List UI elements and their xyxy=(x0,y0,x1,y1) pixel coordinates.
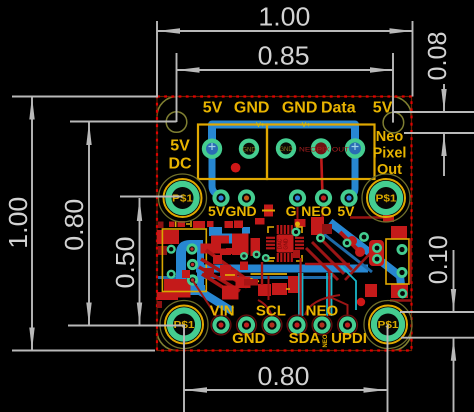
wire red fan 2 xyxy=(201,259,247,287)
smd left column B xyxy=(164,279,191,298)
keepout circle top-left xyxy=(159,174,207,222)
SILK_TEXT xyxy=(168,100,406,348)
svg-text:GND: GND xyxy=(282,100,318,117)
smd top right corner xyxy=(383,215,394,222)
dim line 0.08 right lower xyxy=(443,133,445,176)
smd right block bottom xyxy=(391,284,408,298)
HEADER_PADS xyxy=(159,174,413,349)
via stemma left 2 xyxy=(167,270,176,279)
mounting hole top-right xyxy=(383,112,404,133)
pad header G mid xyxy=(289,189,306,206)
IC silk corner BR xyxy=(296,255,302,261)
pad J2-2 xyxy=(311,138,331,158)
smd strip dark 1 xyxy=(158,222,164,229)
svg-text:P$1: P$1 xyxy=(376,193,397,205)
svg-text:UPDI: UPDI xyxy=(331,330,367,347)
wire 5V stub left down xyxy=(212,146,221,195)
ext line bottom-pad-right vertical xyxy=(387,325,389,412)
svg-text:1.00: 1.00 xyxy=(3,197,33,249)
wire blue diagonal right xyxy=(330,222,402,294)
dim line 0.08 right upper xyxy=(443,84,445,112)
keepout circle bottom-left xyxy=(160,301,208,349)
wire cyan pair 1a xyxy=(298,273,300,316)
ext line board-left vertical xyxy=(156,21,158,97)
smd center red 2 xyxy=(213,255,222,264)
pad J2-3 xyxy=(345,138,365,158)
ext line hole-top-tangent-2 xyxy=(404,132,474,134)
svg-text:Pixel: Pixel xyxy=(373,146,407,162)
dim line 1.00 left xyxy=(31,97,33,351)
arrow 0.85 right xyxy=(370,67,393,72)
red blob right cluster xyxy=(369,240,384,266)
smd in C xyxy=(182,270,190,278)
corner arc top-right xyxy=(392,97,412,117)
via red in connector J1 xyxy=(231,163,241,173)
smd block right of IC xyxy=(311,217,324,235)
ext line board-right vertical xyxy=(412,21,414,97)
ext line board-top horizontal xyxy=(12,96,158,98)
smd center red 3 xyxy=(226,248,232,254)
smd small left xyxy=(158,246,167,255)
via red bottom right xyxy=(357,298,365,306)
smd sot pad 2 xyxy=(355,247,365,257)
smd left column A xyxy=(157,230,179,244)
wire red right hline xyxy=(390,299,411,301)
svg-text:GND: GND xyxy=(234,100,270,117)
wire V+ blue top bus xyxy=(212,125,355,149)
smd bottom cluster 1 xyxy=(221,270,238,281)
smd right mid low xyxy=(365,284,377,297)
svg-text:5V: 5V xyxy=(337,203,355,219)
svg-text:0.85: 0.85 xyxy=(258,41,310,71)
via teal mid 2 xyxy=(262,254,270,262)
svg-text:5V: 5V xyxy=(170,138,190,155)
pad header UPDI bottom xyxy=(338,315,358,335)
wire red diag thick xyxy=(340,232,362,254)
via diag 2 xyxy=(316,234,325,243)
smd center red right xyxy=(251,238,261,256)
mount pad P$1 bottom-left xyxy=(165,306,203,344)
arrow 1.00 left top xyxy=(29,97,34,120)
svg-text:SDA: SDA xyxy=(289,330,321,347)
arrow 0.80 bottom left xyxy=(184,387,207,392)
arrow 1.00 top right xyxy=(390,28,413,33)
wire blue band A xyxy=(196,265,368,273)
wire red vline b xyxy=(300,258,302,316)
arrow 0.10 up xyxy=(451,338,456,361)
IC U1 body xyxy=(277,235,294,253)
ext line hole-bottom-tangent-1 xyxy=(400,311,474,313)
corner arc bottom-left xyxy=(157,331,177,351)
wire red fan 3 xyxy=(199,267,240,291)
pad header 5V mid xyxy=(212,189,229,206)
wire cyan pair 2b xyxy=(331,273,333,316)
IC silk corner TR xyxy=(296,227,302,233)
component R between labels xyxy=(262,205,275,217)
arrow 0.80 left top xyxy=(86,122,91,145)
smd bottom cluster 3 xyxy=(236,277,251,289)
IC U1 pins right xyxy=(295,237,304,250)
svg-text:5V: 5V xyxy=(208,203,226,219)
wire red scl curve xyxy=(258,300,272,316)
smd band left low xyxy=(244,279,258,286)
pad stemma 2 xyxy=(187,259,198,270)
wire blue patch left 3 xyxy=(242,227,250,234)
pad header NEO mid xyxy=(315,189,332,206)
smd sot pad 1 xyxy=(347,236,357,246)
smd below ic right xyxy=(293,250,300,258)
svg-text:5V: 5V xyxy=(373,100,393,117)
wire red g mid down xyxy=(297,207,299,219)
silk tick strip b xyxy=(190,221,192,227)
ext line pad-row-bottom horizontal xyxy=(68,325,184,327)
svg-text:G: G xyxy=(286,203,297,219)
via diag 3 xyxy=(343,239,352,248)
arrow 0.50 left top xyxy=(137,198,142,221)
connector J1 outline xyxy=(198,125,267,180)
wire red diag bundle 2 xyxy=(312,242,344,274)
via right cluster 0 xyxy=(359,232,369,242)
svg-text:0.10: 0.10 xyxy=(423,235,453,284)
pad stemma 3 xyxy=(187,274,198,285)
dim line 0.10 right lower xyxy=(453,338,455,412)
connector J2 outline xyxy=(267,125,375,180)
wire red vin trace xyxy=(193,281,217,317)
dim line 1.00 top xyxy=(157,30,413,32)
IC silk corner BL xyxy=(268,255,274,261)
pad J1-2 xyxy=(239,139,259,159)
arrow 0.85 left xyxy=(177,67,200,72)
svg-text:Neo: Neo xyxy=(376,129,404,145)
wire blue connector C left xyxy=(181,245,205,290)
arrow 0.80 bottom right xyxy=(364,387,387,392)
pad header GND mid xyxy=(238,189,255,206)
pad header SCL bottom xyxy=(262,315,282,335)
svg-text:Data: Data xyxy=(321,100,356,117)
wire red vline d xyxy=(268,276,270,300)
wire red fan 4 xyxy=(202,274,232,293)
via diag 1 xyxy=(292,228,301,237)
mount pad P$1 bottom-right xyxy=(369,306,407,344)
ext line pad-row-top horizontal xyxy=(120,196,183,198)
svg-text:V+: V+ xyxy=(256,122,265,129)
wire red right vline xyxy=(410,239,412,284)
smd fan origin block xyxy=(201,244,222,254)
wire cyan diag xyxy=(341,266,356,310)
pad header SDA bottom xyxy=(287,315,307,335)
dim line 0.85 top xyxy=(177,69,394,71)
smd left column C xyxy=(157,292,178,300)
svg-text:Out: Out xyxy=(377,162,402,178)
smd strip 4 xyxy=(193,221,205,228)
smd center red 1 xyxy=(211,236,229,244)
wire red neo mid down xyxy=(322,203,324,217)
arrow 0.10 down xyxy=(451,289,456,312)
mounting hole top-left xyxy=(166,112,187,133)
silk tick bc5 xyxy=(253,280,259,282)
svg-text:P$1: P$1 xyxy=(172,193,193,205)
silk dot bc xyxy=(250,278,253,281)
via right cluster 2 xyxy=(372,254,382,264)
pad J2-1 xyxy=(276,138,296,158)
silk tick bc3 xyxy=(251,273,288,275)
ext line hole-left vertical xyxy=(176,53,178,122)
svg-text:5V: 5V xyxy=(203,100,223,117)
IC U1 pins top xyxy=(277,225,293,234)
svg-text:V+: V+ xyxy=(302,122,311,129)
wire blue C right side xyxy=(197,248,204,288)
smd pad 253 xyxy=(255,218,265,225)
smd right block top xyxy=(391,226,407,239)
silk tick strip c xyxy=(186,223,190,225)
svg-text:0.80: 0.80 xyxy=(59,199,89,251)
svg-text:NEO: NEO xyxy=(323,334,329,347)
smd bottom cluster 4 xyxy=(258,284,271,296)
smd pad 327 xyxy=(322,224,332,234)
smd center red big xyxy=(232,234,249,256)
svg-text:GND: GND xyxy=(284,238,290,250)
ext line hole-top-left horizontal xyxy=(70,121,177,123)
IC U1 pins left xyxy=(266,237,275,250)
svg-text:DC: DC xyxy=(168,156,192,173)
arrow 0.80 left bottom xyxy=(86,303,91,326)
wire blue band B xyxy=(158,276,332,279)
IC U1 pins bottom xyxy=(277,253,293,262)
svg-text:0.50: 0.50 xyxy=(110,237,140,289)
IC silk corner TL xyxy=(268,227,274,233)
smd on band 2 xyxy=(220,265,231,276)
wire red diag bundle 3 xyxy=(306,248,338,280)
wire red diag bundle 1 xyxy=(318,236,352,270)
wire blue patch left 2 xyxy=(220,234,236,244)
keepout circle bottom-right xyxy=(364,301,412,349)
smd on band 1 xyxy=(204,268,214,277)
dim line 0.10 right upper xyxy=(453,250,455,312)
smd bottom cluster 5 xyxy=(272,283,287,295)
smd strip 3 xyxy=(178,221,186,227)
wire red sda curve xyxy=(305,295,340,315)
pad header VIN bottom xyxy=(211,315,231,335)
smd strip 2 xyxy=(169,222,175,228)
pad right conn 1 xyxy=(397,244,408,255)
via teal mid 1 xyxy=(253,251,261,259)
pad header NEO bottom xyxy=(312,315,332,335)
wire NEO red vertical xyxy=(321,148,323,196)
via right cluster 1 xyxy=(372,243,382,253)
smd strip 5 xyxy=(207,221,214,227)
wire red hline top-right xyxy=(350,216,394,218)
via blue-diag end xyxy=(398,289,408,299)
svg-text:GND: GND xyxy=(232,330,266,347)
wire blue patch left 1 xyxy=(209,227,222,236)
silk tick ic-left xyxy=(270,257,276,259)
BOARD_LAYER xyxy=(157,97,412,351)
silk outline stemma xyxy=(162,229,206,292)
ext line hole-right vertical xyxy=(392,53,394,123)
TOP_CONNECTORS xyxy=(198,122,375,196)
pad right conn 2 xyxy=(397,267,408,278)
wire blue bottom-left diagonal xyxy=(196,289,232,311)
silk tick bc2 xyxy=(249,283,258,285)
ext line hole-top-tangent-1 xyxy=(394,111,474,113)
mount pad P$1 top-left xyxy=(164,179,202,217)
via stemma left 1 xyxy=(167,245,176,254)
wire red vline c xyxy=(328,270,330,316)
wire red updi trace xyxy=(330,297,348,316)
smd left edge low xyxy=(157,301,162,308)
silk outline right connector xyxy=(386,239,409,284)
pad stemma 1 xyxy=(186,243,197,254)
dim line 0.80 left xyxy=(88,122,90,326)
wire red vline a xyxy=(261,262,263,285)
via mid 1 xyxy=(240,252,248,260)
arrow 0.08 up xyxy=(441,133,446,156)
wire red fan 1 xyxy=(206,250,246,279)
smd strip 7 xyxy=(234,221,243,229)
svg-text:SCL: SCL xyxy=(256,303,286,320)
keepout circle top-right xyxy=(362,174,410,222)
arrow 0.08 down xyxy=(441,89,446,112)
pad header GND bottom xyxy=(237,315,257,335)
smd bottom cluster 2 xyxy=(222,286,239,300)
corner arc top-left xyxy=(157,97,177,117)
ext line board-bottom horizontal xyxy=(12,350,155,352)
wire cyan pair 2a xyxy=(326,273,328,316)
svg-text:GND: GND xyxy=(279,147,293,153)
svg-text:0.80: 0.80 xyxy=(258,361,310,391)
mount pad P$1 top-right xyxy=(367,179,405,217)
arrow 0.50 left bottom xyxy=(137,303,142,326)
silk dot small xyxy=(297,229,300,232)
arrow 1.00 left bottom xyxy=(29,328,34,351)
dim line 0.50 left xyxy=(139,198,141,326)
svg-text:GND: GND xyxy=(226,203,257,219)
ext line bottom-pad-left vertical xyxy=(183,325,185,412)
silk tick bc1 xyxy=(225,274,235,276)
pad J1-1 xyxy=(202,139,222,159)
corner arc bottom-right xyxy=(392,331,412,351)
silk dot pin1 xyxy=(295,222,300,227)
pad header 5V2 mid xyxy=(340,189,357,206)
board outline dashed xyxy=(157,97,412,351)
smd bottom cluster 6 xyxy=(288,276,303,293)
silk tick bc4 xyxy=(286,288,290,290)
smd strip 6 xyxy=(225,221,234,228)
svg-text:NEO: NEO xyxy=(306,303,339,320)
MIDDLE_COPPER xyxy=(157,203,411,317)
svg-text:GND: GND xyxy=(242,148,256,154)
smd band left xyxy=(240,262,248,271)
wire red above band xyxy=(305,263,350,265)
ARROWHEADS xyxy=(29,28,456,392)
smd pad under G mid xyxy=(295,219,306,227)
dim line 0.80 bottom xyxy=(184,389,387,391)
wire red diag crossing xyxy=(345,245,378,280)
svg-text:0.08: 0.08 xyxy=(422,32,452,81)
arrow 1.00 top left xyxy=(157,28,180,33)
smd fan right xyxy=(220,249,231,256)
wire blue diagonal thin xyxy=(316,228,372,272)
wire cyan pair 1b xyxy=(302,273,304,316)
svg-text:NEO: NEO xyxy=(301,203,331,219)
silk tick strip a xyxy=(175,221,177,227)
svg-text:1.00: 1.00 xyxy=(258,2,310,32)
wire 5V stub right down xyxy=(351,148,356,196)
ext line hole-bottom-tangent-2 xyxy=(401,337,474,339)
svg-text:VIN: VIN xyxy=(210,303,235,320)
svg-text:NEOPIX OUT: NEOPIX OUT xyxy=(299,147,349,154)
